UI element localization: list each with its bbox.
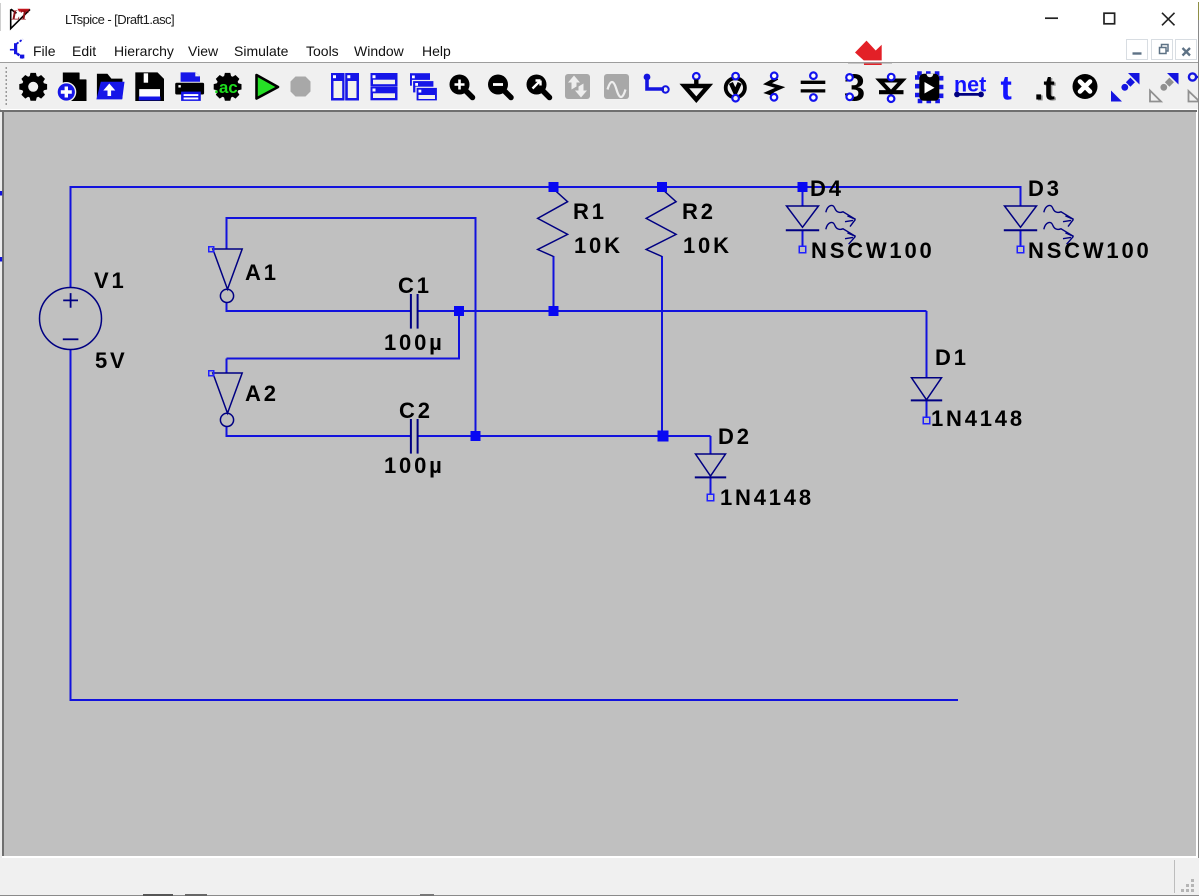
label D2 [718,424,752,450]
pin A1 input [209,247,214,252]
wire R1 bottom lead [553,256,555,311]
label 5V [95,348,128,374]
wire vertical cross x=475 [475,217,477,436]
label R2 value [683,233,732,259]
label D4 [810,176,844,202]
icon text [1001,69,1012,107]
junction C2 out [471,431,481,441]
window bottom border [0,894,1199,896]
resistor R2 [646,189,676,257]
bottom sliver marks [143,894,173,896]
label D3 value [1028,238,1152,264]
menu bar [0,31,1199,61]
junction R1 bottom [549,306,559,316]
inverter A2 [213,373,242,427]
label D1 [935,345,969,371]
icon edit simulation cmd (.ac gear) [214,73,242,101]
icon label net [726,73,745,102]
label C1 [398,273,432,299]
junction C1 out [454,306,464,316]
pin D1 cathode [923,417,930,424]
resistor R1 [538,189,568,257]
label R2 [682,199,716,225]
icon diode [879,74,904,102]
icon inductor [844,68,865,110]
red cursor arrow [848,34,892,70]
pin A2 input [209,371,214,376]
wire D2 cathode lead [710,477,712,495]
label D2 value [720,485,814,511]
wire A2 input drop [226,359,228,374]
wire C1 right to D1 rail [418,310,927,312]
icon zoom out [488,75,511,98]
toolbar grip [6,67,8,105]
LED D3 [1004,205,1074,244]
label A2 [245,381,279,407]
pin D4 cathode [799,246,806,253]
capacitor C1 [411,294,418,329]
window right border [1198,2,1199,20]
edge tick B [0,257,2,262]
maximize [1104,13,1115,24]
edge tick A [0,191,2,196]
icon ground [684,73,708,100]
icon cascade [410,73,438,101]
label C2 [399,398,433,424]
icon save [135,72,164,101]
wire D3 anode lead [1020,186,1022,206]
junction R1 top [549,182,559,192]
label A1 [245,260,279,286]
canvas sunken borders [0,110,1197,112]
wire V1 top lead [70,186,72,288]
wire A1 input drop [226,217,228,249]
inverter A1 [213,249,242,303]
pin D3 cathode [1017,246,1024,253]
icon drag [1150,73,1179,102]
wire C1 out branch down [458,311,460,359]
menu/toolbar separator [0,61,1199,63]
icon waveform (disabled) [604,74,629,99]
wire A1 input rail [227,217,476,219]
minimize [1045,17,1058,19]
junction R2 top [657,182,667,192]
wire A1 output to C1 [227,302,412,311]
label C1 value [384,330,445,356]
voltage source V1 [40,288,102,350]
icon delete [1073,74,1098,99]
label D3 [1028,176,1062,202]
icon move [1111,73,1140,102]
junction R2 bottom [658,431,669,442]
wire D3 cathode lead [1020,230,1022,247]
wire D1 cathode lead [926,400,928,418]
icon resistor [768,73,781,101]
wire branch to A2 input [227,358,461,360]
icon tile vertical [331,73,359,101]
wire R2 bottom lead [661,256,663,436]
diode D2 [695,454,726,477]
label V1 [94,268,127,294]
close [1162,13,1175,25]
icon component [917,74,941,102]
wire C2 right rail [418,435,711,437]
wire D4 cathode lead [802,230,804,247]
label C2 value [384,453,445,479]
pin D2 cathode [707,494,714,501]
junction D4 top [798,182,808,192]
wire top rail V+ [71,186,1021,188]
icon open [96,74,124,100]
label R1 value [574,233,623,259]
icon wire [644,74,669,93]
icon spice directive [1034,70,1056,109]
icon autorange (disabled) [565,74,590,99]
wire D2 drop [710,436,712,454]
window buttons [1030,0,1199,31]
label R1 [573,199,607,225]
label D4 value [811,238,935,264]
wire bottom rail [70,699,959,701]
icon control panel (gear) [19,73,47,101]
title bar [0,0,1199,31]
wire D4 anode lead [802,187,804,206]
LED D4 [786,205,856,244]
label D1 value [931,406,1025,432]
capacitor C2 [411,419,418,454]
status bar [0,858,1199,895]
icon tile horizontal [371,73,398,100]
icon run [257,75,279,99]
menu doc icon [0,31,32,63]
icon net name [954,72,986,97]
icon capacitor [801,72,826,100]
diode D1 [911,378,942,401]
wire D1 drop [926,311,928,378]
icon new schematic [57,72,87,101]
MDI child window buttons [1126,39,1148,60]
icon partial right edge [1189,73,1199,101]
toolbar [0,63,1199,109]
wire A2 output to C2 [227,426,412,436]
icon print [175,72,204,101]
icon zoom in [450,75,473,98]
top edge sliver of background window [0,0,1199,1]
icon zoom full extents [527,75,550,98]
wire V1 bottom lead [70,349,72,701]
resize grip [1178,877,1198,895]
icon halt (disabled) [291,77,311,97]
LTspice app logo [0,0,40,32]
